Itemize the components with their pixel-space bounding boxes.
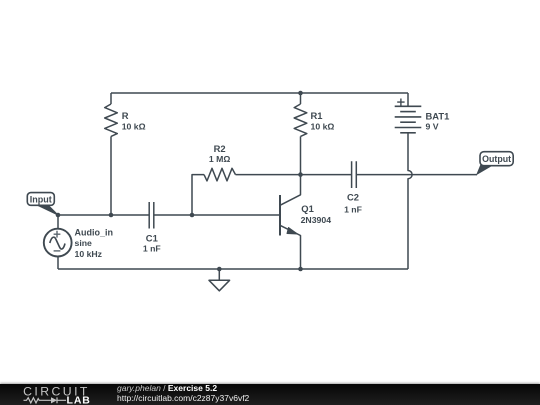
wire bottom rail <box>58 268 408 270</box>
wire R2 left leg <box>192 175 204 215</box>
wire top rail <box>111 92 408 94</box>
svg-text:10 kHz: 10 kHz <box>75 249 103 259</box>
svg-text:R: R <box>122 110 129 121</box>
wire R top lead <box>110 93 112 104</box>
svg-text:C1: C1 <box>146 232 158 243</box>
svg-text:10 kΩ: 10 kΩ <box>311 122 335 132</box>
resistor R1 <box>294 104 307 136</box>
svg-text:sine: sine <box>75 238 93 248</box>
wire battery bottom lead with hop <box>408 133 412 269</box>
wire input row left <box>58 214 149 216</box>
svg-text:BAT1: BAT1 <box>426 110 450 121</box>
ground <box>209 269 230 291</box>
footer bar <box>0 384 540 405</box>
wire R1 top lead <box>300 93 302 104</box>
resistor R2 <box>204 168 236 181</box>
voltage source V1 circle <box>44 229 72 257</box>
node dot emitter <box>298 267 303 272</box>
svg-text:10 kΩ: 10 kΩ <box>122 122 146 132</box>
svg-text:2N3904: 2N3904 <box>301 215 332 225</box>
capacitor C2 <box>352 161 357 188</box>
voltage source V1 leads <box>57 215 59 269</box>
voltage source plus sign <box>54 231 61 238</box>
flag Input <box>27 193 58 215</box>
capacitor C1 <box>149 202 154 229</box>
resistor R <box>105 104 118 136</box>
transistor Q1 <box>280 175 301 269</box>
svg-text:9 V: 9 V <box>426 121 439 131</box>
voltage source minus sign <box>54 250 61 252</box>
svg-text:Audio_in: Audio_in <box>75 228 114 238</box>
node dot ground <box>217 267 222 272</box>
svg-text:R2: R2 <box>214 143 226 154</box>
svg-text:1 MΩ: 1 MΩ <box>209 154 230 164</box>
svg-text:LAB: LAB <box>67 394 91 405</box>
node dot R bottom <box>109 213 114 218</box>
svg-text:Q1: Q1 <box>301 203 314 214</box>
wire R1 bottom lead <box>300 136 302 174</box>
flag Output <box>477 152 513 175</box>
node dot top rail R1 <box>298 91 303 96</box>
svg-text:C2: C2 <box>347 192 359 203</box>
wire R2 to collector node <box>236 174 352 176</box>
circuitlab logo <box>17 385 97 405</box>
svg-text:1 nF: 1 nF <box>344 205 362 215</box>
node dot collector <box>298 172 303 177</box>
voltage source sine <box>50 237 65 249</box>
node dot input <box>56 213 61 218</box>
svg-text:R1: R1 <box>311 110 323 121</box>
svg-text:1 nF: 1 nF <box>143 243 161 253</box>
wire input row right (base wire) <box>154 214 280 216</box>
svg-text:Input: Input <box>30 194 52 204</box>
node dot R2 leg <box>190 213 195 218</box>
wire R bottom lead <box>110 136 112 215</box>
svg-text:Output: Output <box>482 154 511 164</box>
battery BAT1 <box>395 93 422 133</box>
wire C2 to output <box>356 174 477 176</box>
